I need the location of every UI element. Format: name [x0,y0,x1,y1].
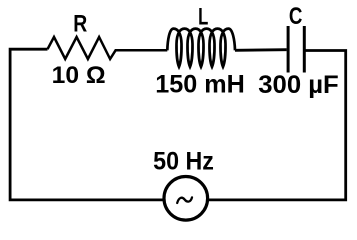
svg-text:150 mH: 150 mH [155,70,245,98]
svg-text:10 Ω: 10 Ω [52,62,106,89]
svg-text:50 Hz: 50 Hz [153,147,214,175]
svg-text:C: C [289,3,303,30]
svg-text:300 µF: 300 µF [258,71,339,99]
svg-text:R: R [73,11,87,38]
svg-text:L: L [198,4,208,31]
